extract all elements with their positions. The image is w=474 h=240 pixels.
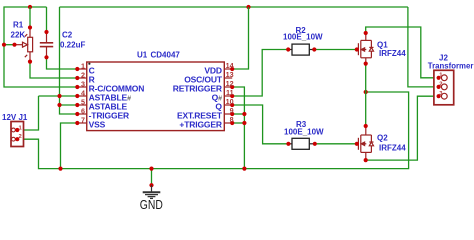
- svg-text:VSS: VSS: [89, 120, 106, 130]
- svg-text:0.22uF: 0.22uF: [60, 41, 85, 50]
- capacitor C2: [40, 32, 53, 57]
- svg-text:IRFZ44: IRFZ44: [379, 49, 406, 58]
- wire pin5 stub: [60, 104, 78, 106]
- U1 pin end dots: [75, 67, 234, 125]
- svg-text:U1: U1: [137, 50, 148, 59]
- svg-text:C2: C2: [62, 31, 73, 40]
- svg-text:100E_10W: 100E_10W: [283, 33, 323, 42]
- svg-text:2: 2: [81, 70, 85, 79]
- svg-text:8: 8: [230, 115, 234, 124]
- svg-text:12: 12: [226, 79, 234, 88]
- wire junction to Q2 top: [365, 92, 367, 126]
- svg-text:CD4047: CD4047: [151, 50, 181, 59]
- svg-text:11: 11: [226, 88, 234, 97]
- svg-text:13: 13: [226, 70, 234, 79]
- wire GND symbol riser: [151, 169, 153, 186]
- wire R2 out to Q1 gate: [314, 49, 357, 51]
- svg-text:Q2: Q2: [377, 134, 388, 143]
- resistor R2 100E 10W: [288, 49, 292, 51]
- svg-text:7: 7: [81, 115, 85, 124]
- op IC U1 CD4047 box: [87, 62, 225, 131]
- svg-text:2: 2: [439, 82, 442, 88]
- svg-text:3: 3: [81, 79, 85, 88]
- node junction pin8 riser: [242, 121, 246, 125]
- svg-text:R1: R1: [13, 21, 24, 30]
- svg-text:IRFZ44: IRFZ44: [379, 144, 406, 153]
- node junction GND rail: [149, 167, 153, 171]
- svg-text:+TRIGGER: +TRIGGER: [179, 120, 222, 130]
- svg-text:100E_10W: 100E_10W: [284, 128, 324, 137]
- wire GND from J1 pin2 along bottom rail up right side: [17, 92, 408, 169]
- transistor Q2 IRFZ44: [358, 126, 373, 160]
- node junction wiper: [2, 43, 6, 47]
- connector J1 12V: [11, 122, 24, 147]
- wire top loop R1/C2 (node R-C/COMMON): [4, 7, 77, 87]
- svg-text:GND: GND: [140, 197, 163, 212]
- wire pin12 drop to rail: [232, 87, 244, 169]
- node junction rail pins riser: [242, 167, 246, 171]
- wire R1 top riser: [29, 7, 31, 28]
- wire R1 bottom to pin2: [30, 62, 77, 78]
- svg-text:12V J1: 12V J1: [2, 113, 28, 122]
- wire VDD drop to pin14: [232, 7, 248, 69]
- svg-text:6: 6: [81, 106, 85, 115]
- node junction pin4 row: [57, 94, 61, 98]
- wire Q1 source to junction: [365, 64, 367, 92]
- svg-text:Transformer: Transformer: [428, 62, 474, 71]
- node junction VDD top: [246, 5, 250, 9]
- node junction pin5 row: [57, 103, 61, 107]
- wire pin8 stub: [232, 122, 244, 124]
- wire pin9 stub: [232, 113, 244, 115]
- U1 pin stubs left: [77, 69, 232, 123]
- transistor Q1 IRFZ44: [358, 33, 373, 64]
- wire C2 top riser: [46, 7, 48, 32]
- wire Q2 drain to J2 pin3: [366, 96, 439, 160]
- wire pin4 from 12V riser: [39, 95, 78, 97]
- connector J2 Transformer: [434, 70, 454, 105]
- ground: [149, 183, 153, 187]
- svg-text:22K: 22K: [11, 31, 26, 40]
- node junction sources: [364, 90, 368, 94]
- node junction top R1: [28, 5, 32, 9]
- wire J1 pin1 12V riser: [17, 96, 38, 130]
- node junction pin9 riser: [242, 112, 246, 116]
- svg-text:1: 1: [81, 61, 85, 70]
- svg-text:9: 9: [230, 106, 234, 115]
- wire VDD top rail: [60, 6, 408, 8]
- node junction VSS rail: [58, 167, 62, 171]
- svg-text:14: 14: [226, 61, 234, 70]
- wire C2 bottom to pin1: [47, 57, 78, 69]
- svg-text:2: 2: [19, 134, 22, 140]
- svg-text:4: 4: [81, 88, 85, 97]
- resistor R3 100E 10W: [288, 143, 292, 145]
- wire wiper to left rail: [4, 44, 15, 46]
- wire pin11 Q# up to R2: [232, 50, 288, 97]
- svg-text:10: 10: [226, 97, 234, 106]
- wire pin10 Q down to R3: [232, 105, 288, 144]
- wire VDD right drop to J2 pin2: [408, 7, 439, 87]
- wire VSS pin7 drop: [61, 123, 78, 169]
- wire R3 out to Q2 gate: [315, 143, 357, 145]
- wire VDD left drop to pin6: [60, 7, 78, 114]
- resistor R1 (trimpot): [15, 28, 33, 62]
- svg-text:5: 5: [81, 97, 85, 106]
- wire Q1 drain to J2 pin1: [366, 27, 439, 78]
